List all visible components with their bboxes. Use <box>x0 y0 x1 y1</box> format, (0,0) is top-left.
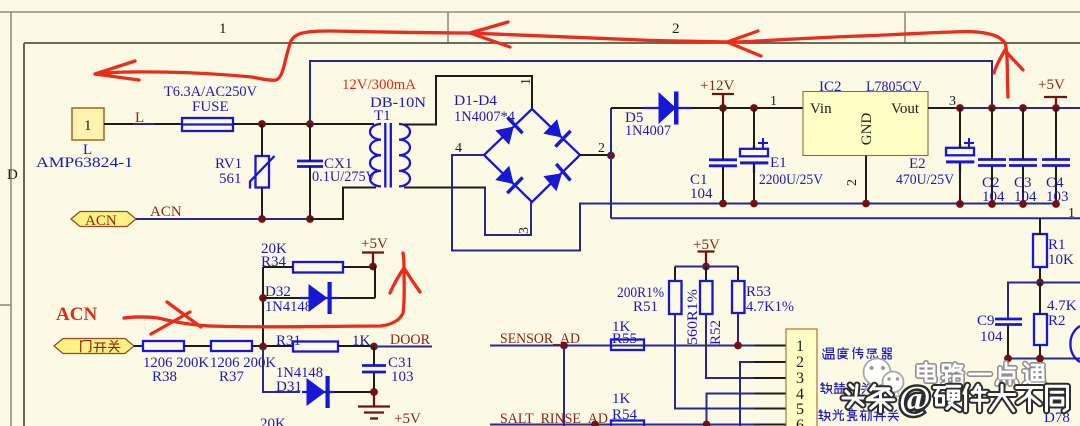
pin6 stub <box>754 424 786 426</box>
bridge diode D3 (bottom-left edge) <box>495 165 524 194</box>
svg-text:104: 104 <box>690 186 713 202</box>
wire R1 node to C9 <box>1008 283 1040 320</box>
wire R31 to DOOR node <box>338 345 374 347</box>
R2 wires <box>1039 283 1041 315</box>
junction +5V R34 <box>369 263 377 271</box>
junction RV1 bottom <box>258 215 266 223</box>
pin1 stub <box>754 345 786 347</box>
R53 top wire <box>737 267 739 282</box>
resistor R55 <box>611 340 644 351</box>
wire R38 to R37 <box>184 345 211 347</box>
svg-text:1: 1 <box>796 338 804 355</box>
resistor R31 <box>293 342 338 352</box>
capacitor C31 <box>362 366 386 373</box>
junction +12V <box>719 104 727 112</box>
svg-text:4: 4 <box>455 141 462 156</box>
junction E2 bottom <box>956 200 964 208</box>
net label segment blue under L <box>133 123 155 125</box>
junction D32 anode <box>259 294 267 302</box>
svg-text:+5V: +5V <box>361 236 388 252</box>
resistor R53 <box>732 281 745 313</box>
svg-text:R38: R38 <box>152 369 177 385</box>
red scribble mid arrowhead 2 <box>727 31 761 56</box>
left vertical wire R34/D32 to door net <box>262 267 264 347</box>
svg-text:GND: GND <box>859 113 875 146</box>
op IC2 L7805CV regulator box <box>803 92 928 156</box>
junction DOOR node <box>370 343 378 351</box>
svg-text:SENSOR_AD: SENSOR_AD <box>500 331 580 347</box>
long blue wire from CX1 junction up and over to +5V rail <box>310 61 992 124</box>
junction +5V divider <box>702 263 710 271</box>
junction C2 bottom <box>988 200 996 208</box>
svg-text:1N4007*4: 1N4007*4 <box>454 109 515 125</box>
sensor stub down wire <box>563 346 565 426</box>
svg-text:470U/25V: 470U/25V <box>896 172 954 188</box>
svg-text:R51: R51 <box>633 299 658 315</box>
red scribble long top line <box>95 31 1008 97</box>
capacitor C1 <box>709 160 737 166</box>
resistor R37 <box>211 341 252 351</box>
CX1 vertical wires <box>309 124 311 161</box>
+5V power symbol above D32 <box>362 253 384 267</box>
junction C9 bottom <box>1004 355 1012 363</box>
capacitor C2 <box>978 160 1006 166</box>
transformer T1 primary coil <box>370 124 381 186</box>
pin2 stub <box>754 361 786 363</box>
wire ACN bottom rail <box>136 218 310 220</box>
junction D31/C31 node <box>370 388 378 396</box>
svg-text:T6.3A/AC250V: T6.3A/AC250V <box>164 84 257 100</box>
svg-text:E1: E1 <box>770 155 787 171</box>
junction sensor stub <box>560 342 568 350</box>
svg-text:6: 6 <box>796 417 804 426</box>
+12V power symbol <box>712 94 734 108</box>
E2 wires <box>959 108 961 148</box>
bottom node wire C9/R2 <box>1008 358 1080 360</box>
svg-text:IC2: IC2 <box>819 79 842 95</box>
svg-text:560R1%: 560R1% <box>685 289 701 345</box>
+5V power symbol sensor divider <box>698 252 715 267</box>
capacitor C3 <box>1009 160 1037 166</box>
svg-text:R37: R37 <box>219 369 245 385</box>
R1 wires <box>1039 218 1041 234</box>
raw rectified bus wire <box>611 217 1080 219</box>
E1 plus sign <box>758 138 768 148</box>
svg-text:D32: D32 <box>265 284 291 300</box>
watermark big text toutiao (Chinese outline) <box>843 385 865 407</box>
E1 wires <box>753 108 755 149</box>
R52 top wire <box>705 267 707 282</box>
junction C4 bottom <box>1052 200 1060 208</box>
resistor R34 <box>293 262 343 273</box>
junction E2 top <box>956 104 964 112</box>
capacitor C4 <box>1042 160 1070 166</box>
junction C4 top / +5V <box>1052 104 1060 112</box>
divider top wire <box>675 266 738 268</box>
svg-text:ACN: ACN <box>150 204 182 220</box>
wire R37 to junction <box>252 345 293 347</box>
electrolytic E1 <box>740 145 768 173</box>
svg-text:3: 3 <box>517 227 532 234</box>
svg-text:104: 104 <box>980 329 1003 345</box>
svg-text:10K: 10K <box>1048 252 1074 268</box>
partial circle component at right edge <box>1070 326 1080 362</box>
svg-text:3: 3 <box>949 94 956 109</box>
svg-text:4.7K1%: 4.7K1% <box>746 299 794 315</box>
wire D31 cathode to C31 bottom node <box>334 391 374 393</box>
svg-text:Vin: Vin <box>810 101 832 117</box>
R51 top wire <box>674 267 676 282</box>
wire secondary bottom to bridge pin3 <box>404 187 486 189</box>
svg-text:5: 5 <box>796 401 804 418</box>
svg-text:12V/300mA: 12V/300mA <box>342 77 416 93</box>
junction at RV1 top <box>258 120 266 128</box>
svg-text:2: 2 <box>845 179 860 186</box>
svg-text:+5V: +5V <box>394 411 421 426</box>
bridge pin 2 wire to D5 junction <box>580 154 611 156</box>
svg-text:R2: R2 <box>1048 313 1066 329</box>
red scribble mid arrowhead 1 <box>470 22 510 47</box>
DOOR net wire <box>374 346 432 348</box>
svg-text:C9: C9 <box>977 313 995 329</box>
wire pin2 node up to D5 and down to raw bus <box>610 108 612 218</box>
connector P1 AMP63824-1 box <box>72 108 104 140</box>
+5V power symbol right <box>1044 97 1067 108</box>
svg-text:1: 1 <box>519 78 534 85</box>
junction C3 bottom <box>1019 200 1027 208</box>
C1 wires <box>722 108 724 160</box>
red scribble bottom arrow cross strokes <box>151 302 201 334</box>
svg-text:D1-D4: D1-D4 <box>454 93 498 109</box>
red scribble bottom up-arrow barbs <box>390 268 420 293</box>
svg-text:3: 3 <box>796 370 804 387</box>
svg-text:R53: R53 <box>746 284 771 300</box>
wire port to R38 <box>134 345 143 347</box>
door switch port hexagon <box>54 339 134 354</box>
resistor R54 <box>611 421 644 426</box>
svg-text:0.1U/275V: 0.1U/275V <box>312 169 376 185</box>
svg-text:D: D <box>7 167 18 183</box>
svg-text:103: 103 <box>391 369 414 385</box>
svg-text:1: 1 <box>219 21 227 37</box>
SENSOR_AD net wire <box>490 345 754 347</box>
svg-text:2: 2 <box>672 21 680 37</box>
IC2 pin 3 wire Vout to +5V rail <box>928 107 957 109</box>
E2 plus sign <box>964 138 974 148</box>
SALT_RINSE_AD net wire <box>490 424 786 426</box>
svg-text:1: 1 <box>84 118 92 134</box>
bridge D1-D4 diamond <box>484 109 580 202</box>
electrolytic E2 <box>946 144 974 172</box>
varistor RV1 <box>250 156 275 189</box>
junction C3 top <box>1019 104 1027 112</box>
svg-text:T1: T1 <box>374 108 391 124</box>
svg-text:FUSE: FUSE <box>192 99 229 115</box>
wire L: connector to fuse <box>104 123 182 125</box>
C31 wires <box>373 347 375 366</box>
connector J1 box <box>786 329 817 426</box>
wire fuse to transformer <box>233 123 374 125</box>
resistor R2 <box>1034 314 1047 345</box>
svg-text:561: 561 <box>219 171 242 187</box>
label salt-missing switch (Chinese) <box>821 383 832 394</box>
svg-text:R1: R1 <box>1048 237 1066 253</box>
C4 wires <box>1055 108 1057 159</box>
resistor R1 <box>1033 234 1047 267</box>
D32 cathode wire <box>338 297 375 299</box>
svg-text:1N4148: 1N4148 <box>265 299 312 315</box>
junction GND pin at bus <box>862 200 870 208</box>
bridge diode D2 (top-right edge) <box>543 119 572 148</box>
svg-text:+12V: +12V <box>700 78 734 94</box>
resistor R38 <box>143 341 184 351</box>
svg-text:AMP63824-1: AMP63824-1 <box>36 155 133 171</box>
svg-text:1: 1 <box>1068 206 1075 221</box>
diode D5 <box>643 92 691 125</box>
red scribble left arrowhead <box>95 61 139 80</box>
right vertical wire D32 cathode to +5V <box>374 267 376 299</box>
label rinse-aid-missing switch (Chinese) <box>819 410 830 421</box>
svg-text:2200U/25V: 2200U/25V <box>759 172 823 188</box>
R53 bottom wire to sensor node <box>737 313 739 346</box>
svg-text:ACN: ACN <box>56 304 97 325</box>
R52 bottom wire to pin3 <box>706 314 754 378</box>
door port text (Chinese door switch) <box>81 341 91 352</box>
junction door node <box>259 343 267 351</box>
junction pin4/salt <box>703 421 711 426</box>
svg-text:D31: D31 <box>276 379 302 395</box>
D32 anode wire <box>263 297 300 299</box>
svg-text:DOOR: DOOR <box>390 332 430 348</box>
transformer T1 core <box>384 123 386 188</box>
svg-text:L: L <box>135 110 144 126</box>
pin4 wire to salt node <box>707 394 787 425</box>
R34 wires <box>263 266 293 268</box>
wire ACN to transformer primary bottom <box>310 188 376 220</box>
C9 bottom wire <box>1007 325 1009 359</box>
svg-text:2: 2 <box>598 141 605 156</box>
ACN port hexagon <box>71 212 136 227</box>
wire secondary top to bridge pin1 <box>404 76 532 125</box>
resistor R51 <box>669 281 682 314</box>
svg-text:1K: 1K <box>352 333 371 349</box>
pin5 stub <box>754 408 786 410</box>
junction bridge pin2 node <box>607 152 615 160</box>
red scribble bottom curve <box>124 253 404 327</box>
pin4 stub <box>754 393 786 395</box>
junction C2 top <box>988 104 996 112</box>
junction C1 bottom <box>719 200 727 208</box>
svg-text:ACN: ACN <box>85 213 117 229</box>
pin3 stub <box>754 377 786 379</box>
wire pin2 corner to D5 anode <box>611 107 645 109</box>
capacitor CX1 <box>297 161 323 167</box>
svg-text:E2: E2 <box>909 156 926 172</box>
wire door node down to D31 <box>263 347 300 393</box>
svg-text:1N4007: 1N4007 <box>625 123 671 139</box>
junction salt wire <box>591 421 599 426</box>
junction R2 bottom <box>1036 355 1044 363</box>
svg-text:2: 2 <box>796 354 804 371</box>
diode D31 <box>302 376 334 408</box>
fuse F1 <box>182 118 233 131</box>
svg-text:1K: 1K <box>612 391 631 407</box>
svg-text:+5V: +5V <box>693 237 720 253</box>
svg-text:RV1: RV1 <box>215 156 242 172</box>
wire D5 cathode to Vin <box>691 107 803 109</box>
junction CX1 bottom <box>306 215 314 223</box>
resistor R52 <box>700 281 713 314</box>
junction R1 bottom node <box>1036 279 1044 287</box>
svg-text:R52: R52 <box>708 320 724 345</box>
junction E1 top <box>750 104 758 112</box>
bridge pin 4 wire to GND bus <box>452 155 1056 251</box>
svg-text:1: 1 <box>770 94 777 109</box>
red scribble right up-arrow barbs <box>994 50 1023 73</box>
watermark text circuit-master (Chinese outline) <box>918 363 935 381</box>
pin2 wire down <box>740 362 786 426</box>
svg-text:Vout: Vout <box>891 101 920 117</box>
RV1 vertical wires <box>261 124 263 156</box>
svg-text:L7805CV: L7805CV <box>866 79 922 95</box>
junction R53/pin1 <box>734 342 742 350</box>
wire R1 node right to edge <box>1040 282 1080 284</box>
svg-text:20K: 20K <box>260 416 286 426</box>
junction E1 bottom <box>750 200 758 208</box>
svg-text:+5V: +5V <box>1038 77 1065 93</box>
capacitor C9 <box>995 319 1022 325</box>
bridge diode D1 (top-left edge) <box>495 116 524 145</box>
ground symbol <box>358 392 390 419</box>
svg-text:4.7K: 4.7K <box>1047 298 1077 314</box>
transformer T1 secondary coil <box>399 124 410 186</box>
label temperature sensor (Chinese) <box>823 348 835 359</box>
bridge diode D4 (bottom-right edge) <box>543 163 572 192</box>
IC2 GND pin wire <box>865 156 867 204</box>
junction at CX1 top <box>306 120 314 128</box>
svg-text:@: @ <box>899 380 931 417</box>
watermark chat bubble logo <box>864 359 904 398</box>
C2 wires <box>991 108 993 159</box>
C3 wires <box>1022 108 1024 159</box>
R51 bottom wire to pin5 <box>675 314 754 409</box>
diode D32 <box>300 282 338 314</box>
